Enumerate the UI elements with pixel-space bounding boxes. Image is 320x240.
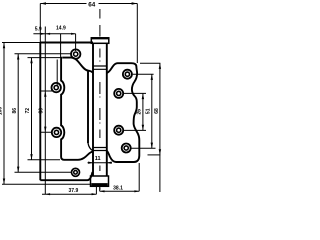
right ext hole F row [124,92,146,94]
hole H [122,144,131,153]
pin centerline [99,9,101,190]
arrows 64 [40,2,46,5]
right dim line 68 [159,63,161,192]
barrel bottom cap [91,176,109,186]
knuckle joint lower [93,148,107,151]
svg-text:38.1: 38.1 [113,185,123,191]
hole G [114,126,123,135]
arrows 26 [142,93,144,99]
left dim line 100 [2,43,91,185]
arrows 38.1 [100,190,105,192]
svg-text:86: 86 [12,108,18,114]
svg-text:68: 68 [154,108,160,114]
left leaf outline [40,43,93,181]
svg-text:64: 64 [88,2,96,9]
arrows 100 [3,43,5,49]
hole A [71,49,80,58]
svg-text:51: 51 [146,108,152,114]
dim 5.9 / 14.9 lines [33,27,75,87]
hole D [72,168,80,176]
dim 11 line [88,163,113,195]
barrel top cap [91,38,109,44]
arrows 30 [44,91,46,97]
dim 38.1 line [100,163,140,191]
svg-text:72: 72 [25,108,31,114]
svg-text:14.9: 14.9 [56,26,66,32]
arrows 86 [17,54,19,60]
arrowheads [3,2,161,195]
arrows 37.9 [45,193,50,195]
dim 37.9 line [42,193,96,195]
right ext hole H row [131,147,155,149]
left dim line 72 [28,58,62,160]
right wing outline [107,63,140,162]
svg-text:26: 26 [137,109,143,115]
right ext wing bottom [148,154,161,156]
arrows 5.9 / 14.9 [41,33,46,35]
hole E [123,70,132,79]
svg-text:37.9: 37.9 [69,188,79,194]
svg-text:100: 100 [0,107,3,116]
right dim line 51 [151,74,153,148]
hole F [114,89,123,98]
left dim line 86 [15,54,72,173]
cutout corner arcs near barrel [88,143,93,151]
svg-text:11: 11 [95,156,101,162]
cutout contour [61,58,93,160]
svg-text:30: 30 [38,108,44,114]
right ext hole E row [133,73,154,75]
right ext wing top [140,62,160,64]
knuckle joint upper [93,66,107,69]
arrows 51 [151,74,153,80]
arrows 68 [159,63,161,69]
arrows 11 [88,162,93,164]
arrows 72 [30,58,32,64]
left dim line 30 [41,40,52,194]
right dim line 26 [142,93,144,130]
right ext hole G row [124,129,146,131]
dim 64 line [40,4,137,64]
svg-text:5.9: 5.9 [35,26,42,32]
hole B [52,83,61,92]
barrel body [93,43,107,176]
hole C [52,128,61,137]
